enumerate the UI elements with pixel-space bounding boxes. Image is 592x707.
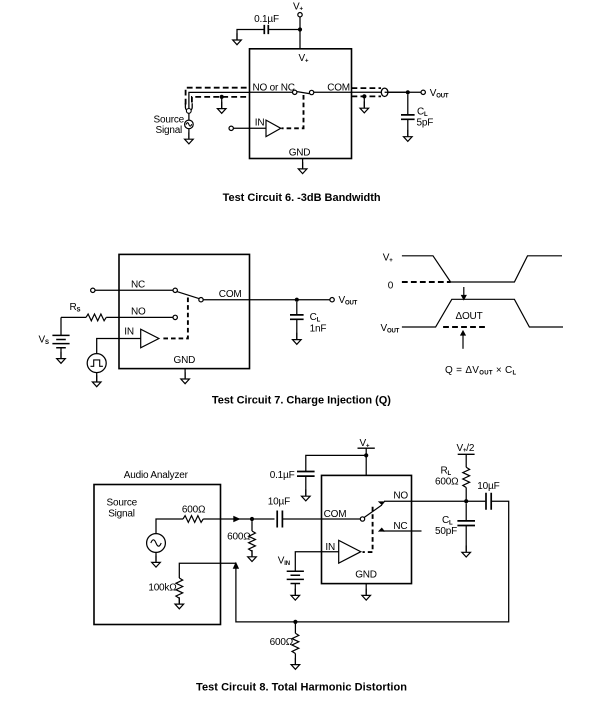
switch arm [297, 92, 309, 94]
ground (sine source) [152, 556, 161, 568]
arrowhead switch arm [378, 501, 386, 505]
switch actuator dashed line [162, 298, 188, 339]
op-amp buffer (driver) [141, 329, 159, 348]
battery VIN [287, 571, 304, 583]
V+/2 rail bar [458, 453, 475, 455]
wire junction to capacitor right plate [268, 29, 298, 31]
arrow up (delta out) [460, 330, 466, 349]
ground (GND pin) [181, 372, 190, 384]
V+ rail bar [358, 447, 375, 449]
wire 10uF to COM pin [282, 518, 360, 520]
wire 600ohm to junction and 10uF [203, 518, 274, 520]
svg-text:GND: GND [289, 147, 311, 158]
source signal sine generator [147, 534, 166, 553]
svg-text:V+/2: V+/2 [457, 443, 475, 454]
wire V+ to box top [365, 448, 367, 475]
svg-text:COM: COM [324, 509, 347, 520]
ground (100k) [175, 597, 184, 609]
ground (600 load) [291, 658, 300, 670]
arrowhead signal direction [233, 516, 240, 523]
svg-text:GND: GND [173, 355, 195, 366]
ground (input coax shield) [217, 102, 226, 114]
coax shield dashed (output top) [352, 87, 382, 89]
svg-text:VOUT: VOUT [430, 88, 449, 100]
terminal VOUT [330, 298, 334, 302]
op-amp buffer (driver) [266, 120, 281, 137]
ground (GND pin) [298, 162, 307, 174]
switch contact circle (NO/NC side) [293, 90, 297, 94]
wire source signal center conductor [189, 92, 250, 120]
coax shield dashed (input, inner) [192, 97, 250, 103]
svg-text:600Ω: 600Ω [182, 504, 206, 515]
ground (CL 50pF) [462, 546, 471, 558]
coax connector barrel (output) [381, 88, 388, 96]
terminal VOUT [421, 90, 425, 94]
dashed VOUT base level line [443, 326, 486, 328]
svg-text:CL: CL [310, 312, 321, 324]
wire junction to load cap CL [407, 94, 409, 115]
ground (0.1uF) [302, 489, 311, 501]
wire capacitor left plate to corner [237, 30, 264, 40]
IC box U3 [322, 475, 412, 583]
node output shield ground dot [362, 94, 366, 98]
ground (bypass cap) [233, 33, 242, 45]
ground (VIN) [291, 589, 300, 601]
arrowhead feedback into analyzer [233, 562, 239, 569]
dashed zero level line [402, 281, 451, 283]
svg-text:Signal: Signal [155, 125, 182, 136]
coax connector barrel (input) [185, 103, 192, 111]
svg-text:CL: CL [417, 107, 428, 119]
svg-text:Test Circuit 8. Total Harmonic: Test Circuit 8. Total Harmonic Distortio… [196, 682, 407, 694]
terminal V+ (open circle) [298, 13, 302, 17]
wire 0.1uF to ground [305, 476, 307, 495]
node feedback junction dot [293, 620, 297, 624]
node junction dot (shunt 600) [250, 517, 254, 521]
wire junction to CL [296, 302, 298, 315]
node output junction dot [406, 90, 410, 94]
ground (GND pin) [362, 589, 371, 601]
IC box U2 [119, 254, 250, 368]
label Source Signal [107, 497, 138, 519]
wire pulse source to IN / op-amp [97, 339, 141, 354]
wire 600 load to ground [294, 654, 296, 664]
resistor 600ohm shunt [249, 531, 256, 551]
resistor 600ohm series [183, 516, 203, 523]
wire V+/2 to RL [465, 454, 467, 467]
svg-text:IN: IN [124, 327, 134, 338]
wire NO pin to RL junction [384, 500, 485, 502]
capacitor CL 50pF [457, 521, 475, 526]
wire GND pin down [365, 584, 367, 595]
svg-text:NO: NO [393, 491, 408, 502]
ground (output coax shield) [360, 101, 369, 113]
node output junction dot [295, 298, 299, 302]
ground (CL 1nF) [293, 333, 302, 345]
svg-text:5pF: 5pF [417, 118, 434, 129]
node junction dot at V+ rail [298, 27, 302, 31]
svg-text:COM: COM [327, 82, 350, 93]
waveform V+ drive [402, 256, 562, 282]
wire 100k to ground [178, 598, 180, 603]
svg-text:VOUT: VOUT [381, 323, 400, 335]
ground (VS battery) [57, 352, 66, 364]
wire V+ terminal down to box top [299, 17, 301, 49]
capacitor CL 1nF [290, 315, 304, 319]
svg-text:Signal: Signal [108, 509, 135, 520]
svg-text:0.1µF: 0.1µF [254, 14, 279, 25]
svg-text:600Ω: 600Ω [270, 637, 294, 648]
wire junction down to CL [465, 503, 467, 520]
coax shield dashed (output bottom) [352, 95, 382, 97]
wire output shield ground stub [363, 96, 365, 107]
wire coax to VOUT terminal [385, 91, 421, 93]
wire shield ground stub [221, 97, 223, 108]
resistor RL 600ohm [463, 467, 470, 487]
wire VIN battery to ground [294, 584, 296, 595]
wire CL to ground [407, 119, 409, 136]
IC box U1 [250, 49, 352, 159]
wire GND pin down [184, 369, 186, 379]
svg-text:V+: V+ [383, 252, 393, 264]
svg-text:IN: IN [255, 117, 265, 128]
svg-text:V+: V+ [293, 2, 303, 13]
svg-text:Source: Source [107, 497, 138, 508]
svg-text:CL: CL [442, 515, 453, 527]
wire VS to resistor RS [61, 316, 86, 318]
switch arm (COM to NO) [364, 505, 382, 517]
capacitor C 0.1uF (bypass) [264, 25, 268, 34]
arrow down (charge transfer) [461, 287, 467, 301]
wire VIN to IN pin [295, 552, 338, 572]
resistor 100kohm [176, 578, 183, 598]
wire GND pin down [302, 159, 304, 169]
svg-text:COM: COM [219, 289, 242, 300]
capacitor CL 5pF [401, 115, 415, 119]
waveform VOUT [402, 299, 563, 327]
ground (shunt 600) [248, 550, 257, 562]
svg-text:VIN: VIN [278, 556, 290, 568]
svg-text:Test Circuit 7. Charge Injecti: Test Circuit 7. Charge Injection (Q) [212, 394, 391, 406]
svg-text:0.1µF: 0.1µF [270, 470, 295, 481]
wire NC terminal to switch contact [95, 289, 173, 291]
switch contact circle COM [360, 517, 364, 521]
svg-text:GND: GND [355, 570, 377, 581]
wire NC stub [383, 530, 422, 532]
wire VS branch down [60, 317, 62, 335]
capacitor 10uF input coupling [277, 511, 282, 528]
svg-text:VS: VS [39, 335, 49, 347]
svg-text:0: 0 [388, 280, 394, 291]
wire RL to NO junction [465, 488, 467, 502]
ground (source signal) [185, 132, 194, 144]
pulse generator source [87, 354, 106, 373]
ground (pulse source) [92, 375, 101, 387]
wire RS to NO contact [106, 316, 173, 318]
coax connector inner ring (input) [186, 109, 191, 114]
svg-text:RL: RL [441, 465, 452, 477]
arrowhead NC contact [378, 528, 385, 532]
wire battery to ground [60, 348, 62, 358]
svg-text:ΔOUT: ΔOUT [456, 311, 483, 322]
svg-text:Audio Analyzer: Audio Analyzer [124, 470, 189, 481]
wire pulse source to ground [96, 373, 98, 382]
wire source to analyzer ground [155, 552, 157, 561]
svg-text:RS: RS [70, 302, 81, 314]
wire junction to 600ohm load [294, 622, 296, 633]
svg-text:10µF: 10µF [477, 481, 499, 492]
switch actuator dashed line [363, 507, 373, 552]
svg-text:10µF: 10µF [268, 497, 290, 508]
switch contact circle NC [173, 288, 177, 292]
svg-text:600Ω: 600Ω [435, 476, 459, 487]
wire 100k to feedback node [179, 563, 236, 578]
node shield ground junction dot [220, 95, 224, 99]
resistor 600ohm load [292, 633, 299, 653]
svg-text:Test Circuit 6. -3dB Bandwidth: Test Circuit 6. -3dB Bandwidth [223, 192, 381, 204]
capacitor 10uF output coupling [486, 493, 491, 510]
svg-text:NC: NC [131, 279, 145, 290]
wire shunt 600 to ground [251, 551, 253, 556]
wire COM to output junction [203, 299, 330, 301]
node V+ supply label (top) [293, 2, 303, 13]
svg-text:VOUT: VOUT [339, 295, 358, 307]
svg-text:NC: NC [393, 521, 407, 532]
wire CL to ground [465, 526, 467, 552]
svg-text:100kΩ: 100kΩ [148, 583, 177, 594]
switch contact circle (COM side) [309, 90, 313, 94]
switch contact circle COM [199, 298, 203, 302]
svg-text:50pF: 50pF [435, 526, 457, 537]
svg-text:NO or NC: NO or NC [253, 82, 295, 93]
wire V+ to 0.1uF cap [306, 455, 366, 471]
terminal NC (open circle) [91, 288, 95, 292]
wire NO/NC pin into switch [250, 91, 293, 93]
wire junction down to shunt 600ohm [251, 521, 253, 531]
svg-text:1nF: 1nF [310, 323, 327, 334]
source signal sine generator [185, 120, 194, 129]
node V+ junction dot [364, 453, 368, 457]
svg-text:Q = ΔVOUT × CL: Q = ΔVOUT × CL [445, 365, 517, 377]
resistor RS [86, 314, 106, 321]
switch contact circle NO [173, 315, 177, 319]
battery VS [52, 335, 69, 347]
wire source to ground [188, 129, 190, 139]
svg-text:Source: Source [154, 114, 185, 125]
wire CL to ground [296, 319, 298, 339]
label Source Signal [154, 114, 185, 136]
audio analyzer box [94, 485, 221, 625]
svg-text:V+: V+ [299, 53, 309, 65]
capacitor 0.1uF (bypass) [297, 472, 315, 477]
svg-text:NO: NO [131, 306, 146, 317]
ground (CL load) [404, 130, 413, 142]
terminal IN (open circle) [229, 126, 233, 130]
wire output cap around to feedback [236, 501, 509, 622]
switch arm (NC to COM) [177, 292, 199, 299]
node NO junction dot [464, 499, 468, 503]
wire IN terminal to op-amp [233, 127, 266, 129]
wire COM pin to output junction [314, 91, 406, 93]
svg-text:600Ω: 600Ω [227, 532, 251, 543]
op-amp buffer (driver) [339, 540, 361, 563]
coax shield dashed (input, outer) [186, 88, 250, 105]
switch actuator dashed line [282, 95, 304, 128]
wire source up to 600 ohm [156, 519, 183, 534]
